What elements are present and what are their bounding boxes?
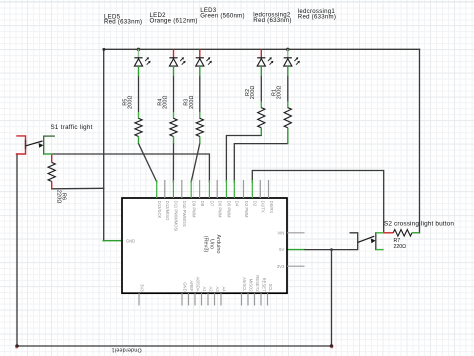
pin 3V3 (138, 293, 140, 305)
label Arduino Uno (Rev3) (202, 235, 220, 254)
svg-text:D12/MISO: D12/MISO (165, 201, 170, 221)
pin D4 (233, 180, 235, 198)
svg-text:D7: D7 (210, 201, 215, 207)
pin D0/RX (268, 180, 270, 198)
svg-text:200Ω: 200Ω (189, 95, 195, 109)
resistor R1 (272, 86, 292, 144)
svg-text:A5/SCL: A5/SCL (242, 277, 247, 292)
LED LED2 (169, 49, 185, 66)
pin D11 PWM/MOSI (172, 180, 174, 198)
pin D1/TX (259, 180, 261, 198)
pin A1 (201, 293, 203, 305)
svg-text:Red (633nm): Red (633nm) (104, 19, 142, 26)
wire LED3 cathode green (199, 66, 201, 76)
svg-text:Red (633nm): Red (633nm) (298, 13, 336, 20)
svg-text:Uno: Uno (209, 239, 215, 249)
svg-text:200Ω: 200Ω (128, 95, 134, 109)
wire R4 to pin D11 (172, 144, 174, 182)
svg-text:A0/SDA: A0/SDA (195, 277, 200, 292)
wire R1 to pin D4 (234, 144, 287, 182)
wire LED5 cathode green (138, 66, 140, 76)
wire GND bus left vertical (node GND rail) (103, 49, 105, 240)
LED LED3 (196, 49, 212, 66)
svg-text:AREF: AREF (189, 280, 194, 292)
pin AREF (188, 293, 190, 305)
svg-text:Orange (612nm): Orange (612nm) (150, 17, 198, 24)
pin 3V3 (287, 265, 305, 267)
pin RESET (260, 293, 262, 305)
pin D13/SCK (156, 180, 158, 198)
svg-text:220Ω: 220Ω (394, 244, 407, 250)
svg-text:D11 PWM/MOSI: D11 PWM/MOSI (174, 201, 179, 232)
node junction bottom-left (15, 344, 19, 348)
svg-text:5V: 5V (279, 247, 284, 252)
wire ledcrossing1 cathode green (287, 66, 289, 76)
svg-text:A2: A2 (208, 286, 213, 292)
LED ledcrossing1 (284, 49, 300, 66)
svg-text:D8: D8 (200, 201, 205, 207)
pin D8 (199, 180, 201, 198)
pin A3 (214, 293, 216, 305)
pin D10 PWM/SS (181, 180, 183, 198)
wire 5V from Arduino green (287, 249, 305, 251)
pin VIN (287, 232, 305, 234)
node junction bottom-right (330, 344, 334, 348)
node junction 5V tee (330, 248, 333, 251)
svg-text:3V3: 3V3 (139, 284, 144, 292)
pin A4 (220, 293, 222, 305)
resistor R6 (48, 154, 66, 204)
svg-text:Green (560nm): Green (560nm) (200, 12, 245, 19)
pin D6 PWM (216, 180, 218, 198)
svg-text:RESET: RESET (261, 278, 266, 292)
wire R6 bottom to GND vertical (52, 187, 104, 190)
node rail corner bendpoint (102, 48, 105, 51)
switch S1 traffic light (16, 136, 55, 155)
svg-text:D0/RX: D0/RX (269, 201, 274, 214)
pin A2 (207, 293, 209, 305)
svg-text:200Ω: 200Ω (250, 86, 256, 100)
svg-text:D1/TX: D1/TX (261, 201, 266, 213)
pin D3 PWM (243, 180, 245, 198)
svg-text:(Rev3): (Rev3) (202, 236, 208, 253)
switch S2 crossing light button (350, 232, 384, 250)
pin D5 PWM (225, 180, 227, 198)
resistor R7 (384, 230, 420, 251)
svg-text:MISO2: MISO2 (248, 279, 253, 293)
svg-text:D13/SCK: D13/SCK (157, 201, 162, 219)
svg-text:S2 crossing light button: S2 crossing light button (384, 220, 454, 227)
svg-text:200Ω: 200Ω (277, 86, 283, 100)
resistor R4 (157, 95, 177, 143)
svg-text:GND: GND (126, 239, 135, 244)
wire top rail horizontal (104, 48, 420, 50)
LED ledcrossing2 (257, 49, 273, 66)
pin A0/SDA (194, 293, 196, 305)
svg-text:D9 PWM: D9 PWM (192, 201, 197, 218)
wire LED2 cathode green (173, 66, 175, 76)
pin D7 (208, 180, 210, 198)
resistor R5 (122, 95, 142, 143)
svg-text:Onderdeel1: Onderdeel1 (111, 347, 141, 353)
pin A5/SCL (241, 293, 243, 305)
pin MISO2 (247, 293, 249, 305)
resistor R3 (184, 95, 204, 143)
svg-text:D3 PWM: D3 PWM (244, 201, 249, 218)
resistor R2 (245, 86, 265, 136)
svg-text:D10 PWM/SS: D10 PWM/SS (182, 201, 187, 227)
node junction dot LED5 (137, 48, 141, 52)
wire R5 to pin D13 diagonal (139, 144, 157, 182)
svg-text:SCL: SCL (268, 283, 273, 292)
pin GND (181, 293, 183, 305)
svg-text:D5 PWM: D5 PWM (227, 201, 232, 218)
wire 5V loop S1 bottom rail (17, 154, 332, 346)
wire R2 to pin D5 (226, 136, 261, 182)
wire ledcrossing2 cathode green (260, 66, 262, 76)
svg-text:3V3: 3V3 (277, 264, 285, 269)
svg-text:200Ω: 200Ω (163, 95, 169, 109)
svg-text:D2: D2 (253, 201, 258, 207)
svg-text:Red (633nm): Red (633nm) (253, 17, 291, 24)
svg-text:RESET2: RESET2 (255, 275, 260, 292)
svg-text:D6 PWM: D6 PWM (218, 201, 223, 218)
wire GND green to Arduino GND pin (103, 240, 122, 242)
svg-text:GND: GND (182, 282, 187, 291)
node junction dot ledcrossing1 (286, 48, 290, 52)
svg-text:A1: A1 (202, 286, 207, 292)
pin D2 (251, 180, 253, 198)
pin D12/MISO (164, 180, 166, 198)
wire right rail vertical down to R7 (419, 49, 421, 233)
svg-text:220Ω: 220Ω (55, 190, 61, 204)
svg-text:S1 traffic light: S1 traffic light (51, 124, 93, 131)
wire 5V to S2 (305, 249, 350, 251)
svg-text:A3: A3 (215, 286, 220, 292)
svg-text:Arduino: Arduino (215, 235, 221, 254)
svg-text:R7: R7 (394, 238, 401, 244)
svg-text:D4: D4 (235, 201, 240, 207)
pin RESET2 (254, 293, 256, 305)
wire S2 to pin D2 (252, 171, 383, 233)
pin SCL (267, 293, 269, 305)
wire S1 output to pin D7 (44, 154, 210, 182)
pin D9 PWM (190, 180, 192, 198)
svg-text:VIN: VIN (277, 230, 284, 235)
LED LED5 (134, 49, 150, 66)
wire R3 to pin D9 diagonal (191, 144, 200, 182)
IC U1 Arduino Uno (Rev3) (122, 180, 305, 306)
svg-text:A4: A4 (221, 286, 226, 292)
